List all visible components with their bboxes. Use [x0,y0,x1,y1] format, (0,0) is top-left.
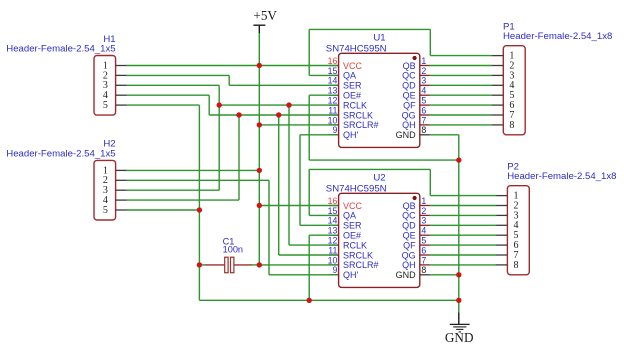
svg-text:15: 15 [328,66,338,76]
svg-text:8: 8 [509,120,514,131]
svg-text:QA: QA [343,211,356,221]
svg-text:SN74HC595N: SN74HC595N [326,184,387,195]
svg-text:12: 12 [328,236,338,246]
svg-text:14: 14 [328,76,338,86]
svg-text:10: 10 [328,255,338,265]
svg-text:12: 12 [328,96,338,106]
svg-text:SRCLK: SRCLK [343,110,373,120]
svg-text:QH': QH' [343,270,359,280]
svg-text:15: 15 [328,206,338,216]
svg-text:VCC: VCC [343,61,363,71]
svg-text:+5V: +5V [253,8,277,23]
svg-text:QH: QH [402,120,416,130]
svg-text:RCLK: RCLK [343,240,367,250]
svg-text:QE: QE [403,231,416,241]
svg-text:16: 16 [328,196,338,206]
svg-text:8: 8 [421,125,426,135]
svg-text:U2: U2 [373,172,385,183]
svg-text:OE#: OE# [343,91,361,101]
svg-text:13: 13 [328,86,338,96]
svg-text:5: 5 [421,96,426,106]
svg-text:SRCLR#: SRCLR# [343,260,379,270]
svg-text:SRCLR#: SRCLR# [343,120,379,130]
svg-text:4: 4 [421,86,426,96]
svg-text:VCC: VCC [343,201,363,211]
svg-text:QB: QB [403,61,416,71]
svg-text:9: 9 [332,125,337,135]
svg-text:11: 11 [328,105,337,115]
svg-text:QG: QG [402,250,416,260]
svg-text:13: 13 [328,226,338,236]
svg-text:RCLK: RCLK [343,100,367,110]
svg-text:14: 14 [328,216,338,226]
svg-text:QH: QH [402,260,416,270]
svg-text:GND: GND [396,270,417,280]
svg-text:9: 9 [332,265,337,275]
svg-text:7: 7 [421,255,426,265]
svg-text:10: 10 [328,115,338,125]
svg-text:SER: SER [343,81,362,91]
svg-text:16: 16 [328,56,338,66]
svg-text:Header-Female-2.54_1x8: Header-Female-2.54_1x8 [503,31,612,42]
svg-text:QH': QH' [343,130,359,140]
svg-text:QG: QG [402,110,416,120]
svg-text:6: 6 [421,245,426,255]
svg-text:SN74HC595N: SN74HC595N [326,44,387,55]
svg-text:1: 1 [421,56,426,66]
svg-text:4: 4 [421,226,426,236]
svg-text:QD: QD [402,221,416,231]
svg-text:2: 2 [421,206,426,216]
svg-text:5: 5 [103,205,108,216]
svg-text:QE: QE [403,91,416,101]
svg-text:GND: GND [396,130,417,140]
svg-text:Header-Female-2.54_1x5: Header-Female-2.54_1x5 [6,149,115,160]
svg-text:1: 1 [421,196,426,206]
svg-text:QF: QF [403,100,416,110]
svg-text:OE#: OE# [343,231,361,241]
svg-text:QA: QA [343,71,356,81]
svg-text:5: 5 [421,236,426,246]
svg-text:2: 2 [421,66,426,76]
svg-text:QC: QC [402,71,416,81]
svg-text:5: 5 [103,100,108,111]
svg-text:GND: GND [445,330,474,345]
svg-text:8: 8 [514,260,519,271]
svg-text:U1: U1 [373,32,385,43]
svg-text:3: 3 [421,76,426,86]
svg-text:11: 11 [328,245,337,255]
svg-text:3: 3 [421,216,426,226]
svg-text:QF: QF [403,240,416,250]
svg-text:7: 7 [421,115,426,125]
svg-text:SER: SER [343,221,362,231]
svg-text:QB: QB [403,201,416,211]
svg-text:100n: 100n [223,244,243,254]
svg-text:6: 6 [421,105,426,115]
svg-text:SRCLK: SRCLK [343,250,373,260]
svg-text:8: 8 [421,265,426,275]
svg-text:QC: QC [402,211,416,221]
svg-text:Header-Female-2.54_1x5: Header-Female-2.54_1x5 [6,44,115,55]
svg-text:QD: QD [402,81,416,91]
svg-text:Header-Female-2.54_1x8: Header-Female-2.54_1x8 [507,171,616,182]
